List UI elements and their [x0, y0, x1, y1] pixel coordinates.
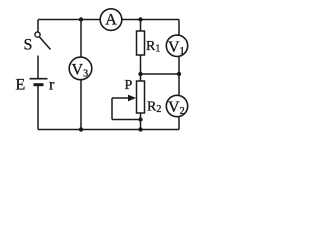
svg-text:R1: R1	[146, 39, 160, 55]
node dot wiper return	[138, 117, 142, 121]
wire bottom	[38, 129, 179, 131]
wire right vertical	[178, 20, 180, 130]
wire left middle (switch to battery)	[37, 56, 39, 79]
voltmeter V2 circle	[166, 95, 187, 116]
wiper arrowhead	[128, 95, 136, 102]
node dot bottom R2	[138, 127, 142, 131]
node dot right rail mid	[177, 72, 181, 76]
wire wiper return horizontal	[112, 119, 141, 121]
node dot top R1	[138, 17, 142, 21]
wire left upper (corner to switch)	[37, 20, 39, 33]
wire R1 to node	[140, 55, 142, 81]
wiper arm P line	[112, 97, 129, 99]
battery long plate	[30, 78, 48, 80]
wire wiper return vertical	[111, 98, 113, 120]
ammeter A circle	[100, 9, 122, 31]
switch S pivot circle	[35, 32, 40, 37]
voltmeter V3 circle	[69, 57, 92, 80]
node dot mid R1/R2	[138, 72, 142, 76]
voltmeter V1 circle	[166, 35, 187, 56]
node dot top V3	[79, 17, 83, 21]
svg-text:A: A	[105, 12, 117, 29]
svg-text:E: E	[16, 77, 26, 94]
node dot bottom V3	[79, 127, 83, 131]
battery short plate	[34, 83, 44, 86]
wire top	[38, 19, 179, 21]
switch S blade	[39, 37, 50, 50]
resistor R2 body (rheostat)	[137, 81, 145, 113]
wire R1 branch top	[140, 20, 142, 32]
svg-text:P: P	[125, 78, 133, 93]
svg-text:r: r	[49, 77, 55, 94]
wire V3 branch	[80, 20, 82, 130]
wire R2 bottom	[140, 113, 142, 130]
resistor R1 body	[137, 31, 145, 55]
svg-text:S: S	[24, 37, 33, 54]
wire node to right rail	[141, 73, 180, 75]
svg-text:R2: R2	[147, 100, 161, 116]
wire left lower (battery to bottom)	[37, 86, 39, 130]
